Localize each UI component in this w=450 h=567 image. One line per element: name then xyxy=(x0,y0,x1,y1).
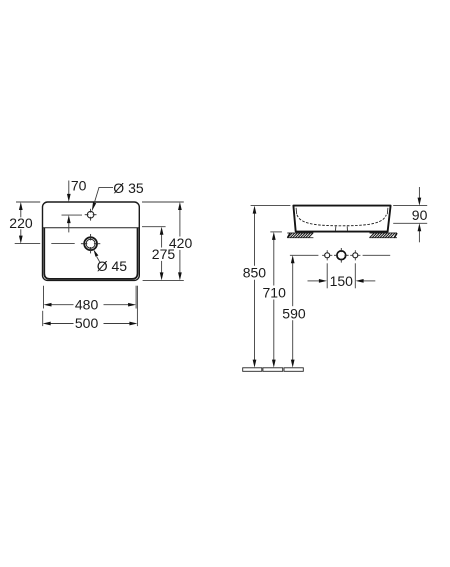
svg-text:Ø 45: Ø 45 xyxy=(97,258,128,274)
svg-text:150: 150 xyxy=(330,273,354,289)
svg-text:590: 590 xyxy=(282,305,306,321)
svg-text:275: 275 xyxy=(152,246,176,262)
svg-text:480: 480 xyxy=(75,296,99,312)
svg-text:70: 70 xyxy=(71,177,87,193)
svg-text:500: 500 xyxy=(75,315,99,331)
svg-text:710: 710 xyxy=(263,285,287,301)
svg-text:90: 90 xyxy=(412,207,428,223)
svg-text:850: 850 xyxy=(243,265,267,281)
svg-text:220: 220 xyxy=(9,215,33,231)
svg-text:Ø 35: Ø 35 xyxy=(113,180,144,196)
